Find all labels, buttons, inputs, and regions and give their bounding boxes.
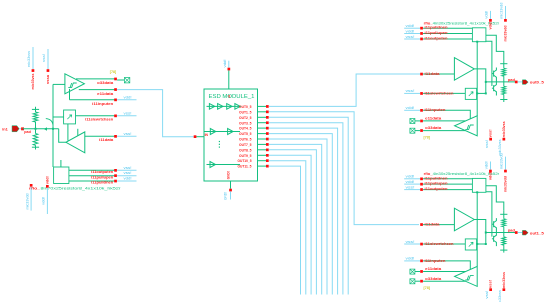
wire buf out 3 bbox=[474, 69, 486, 94]
svg-text:vdd!: vdd! bbox=[124, 177, 132, 181]
vss bar 3 bbox=[500, 100, 507, 103]
wire i11pulldnen 3 bbox=[404, 24, 472, 30]
label OUT2_5 bbox=[239, 116, 252, 120]
wire i11data bbox=[85, 135, 116, 137]
svg-text:vdd!: vdd! bbox=[485, 161, 489, 169]
svg-text:i11outputen: i11outputen bbox=[91, 170, 114, 174]
label OUT1_5 bbox=[239, 110, 252, 114]
pin i11inputen bbox=[114, 95, 136, 101]
label pad 3 bbox=[508, 78, 516, 82]
svg-text:OUT4_5: OUT4_5 bbox=[239, 127, 252, 131]
rail vdd top 4 bbox=[485, 161, 493, 180]
label out0_5 bbox=[530, 80, 545, 85]
svg-text:vdd!: vdd! bbox=[488, 22, 492, 30]
svg-text:pad: pad bbox=[24, 130, 31, 134]
svg-text:vss!: vss! bbox=[485, 291, 489, 299]
svg-text:OUT2_5: OUT2_5 bbox=[239, 116, 252, 120]
pin o33data bbox=[114, 78, 117, 81]
svg-text:OUT7_5: OUT7_5 bbox=[239, 143, 252, 147]
rail mic33vss bot 4 bbox=[498, 272, 506, 302]
pins OUT stubs bbox=[258, 106, 267, 166]
svg-text:pad: pad bbox=[508, 228, 516, 232]
label [78] 4 bbox=[424, 286, 430, 290]
label OUT4_5 bbox=[239, 127, 252, 131]
wire OUT1 to bottom cell bbox=[269, 112, 419, 225]
svg-text:vss!: vss! bbox=[406, 240, 415, 244]
rail vss bot 3 bbox=[485, 129, 493, 148]
label OUT5_5 bbox=[239, 132, 252, 136]
label i11pulldnen bbox=[91, 181, 114, 185]
svg-text:[78]: [78] bbox=[110, 70, 116, 74]
resistor R1 top bbox=[32, 107, 39, 129]
dots bbox=[219, 141, 220, 148]
port in1 bbox=[2, 126, 24, 132]
slew box A1 bbox=[64, 110, 76, 124]
svg-text:out1_5: out1_5 bbox=[530, 230, 545, 235]
label [78] bbox=[110, 70, 116, 74]
label i11slewrtchsen bbox=[85, 118, 114, 122]
svg-text:i11inputen: i11inputen bbox=[425, 108, 447, 112]
svg-text:GND!: GND! bbox=[227, 171, 231, 179]
svg-text:vss!: vss! bbox=[124, 111, 132, 115]
label e11data bbox=[97, 92, 114, 96]
label OUT10_5 bbox=[238, 159, 252, 163]
pin i11pullupen bbox=[114, 171, 136, 177]
wire ctrl out2 4 bbox=[486, 186, 504, 211]
transistor Q3b bbox=[492, 82, 497, 96]
svg-text:vdd!: vdd! bbox=[406, 106, 415, 110]
svg-text:OUT6_5: OUT6_5 bbox=[239, 138, 252, 142]
svg-text:vssa: vssa bbox=[46, 74, 50, 84]
wire o33data 3 bbox=[420, 126, 465, 132]
wire driver feed bbox=[68, 124, 78, 141]
control box 3 bbox=[472, 28, 486, 42]
svg-text:i11outputen: i11outputen bbox=[425, 37, 449, 41]
label cell out3 bbox=[424, 21, 500, 25]
rail vss bot 4 bbox=[485, 280, 493, 299]
wire i11pulldnen bbox=[69, 180, 116, 182]
svg-text:i11data: i11data bbox=[99, 138, 114, 142]
svg-text:i11pullupen: i11pullupen bbox=[425, 182, 449, 186]
label i11inputen bbox=[92, 102, 114, 106]
pin e11data bbox=[114, 88, 117, 91]
svg-text:mic33vss: mic33vss bbox=[502, 272, 506, 288]
svg-text:pad: pad bbox=[508, 78, 516, 82]
svg-text:o33data: o33data bbox=[97, 81, 114, 85]
svg-text:i11pulldnen: i11pulldnen bbox=[91, 181, 114, 185]
wire slew in bbox=[53, 116, 64, 118]
svg-text:vdd!: vdd! bbox=[223, 60, 227, 68]
iopin o33data bbox=[117, 78, 130, 83]
label pad 4 bbox=[508, 228, 516, 232]
svg-text:OUT0_5: OUT0_5 bbox=[239, 105, 252, 109]
wire pad line 3 bbox=[485, 81, 515, 83]
label cell left bbox=[29, 186, 122, 190]
resistor Rtop 3 bbox=[502, 64, 506, 82]
wire i11pullupen 3 bbox=[404, 29, 472, 35]
pin i11outputen bbox=[114, 166, 136, 172]
svg-text:i11pullupen: i11pullupen bbox=[91, 175, 114, 179]
pin GND bottom bbox=[224, 171, 232, 200]
svg-text:i11slewrtchsen: i11slewrtchsen bbox=[425, 242, 455, 246]
wire ctrl feed bbox=[60, 160, 62, 167]
node pad bbox=[24, 130, 31, 134]
svg-text:vdd!: vdd! bbox=[406, 29, 415, 33]
port out0_5 bbox=[522, 80, 528, 85]
label pin vdd num bbox=[228, 95, 230, 99]
svg-text:vss!: vss! bbox=[406, 89, 415, 93]
transistor Q3a bbox=[492, 68, 497, 82]
pin pad 3 bbox=[515, 81, 523, 84]
rail vdd bottom bbox=[42, 176, 50, 214]
label out1_5 bbox=[530, 230, 545, 235]
wire ctrl out2 3 bbox=[486, 35, 504, 60]
rail vdd top 3 bbox=[485, 11, 493, 30]
wire i11data 4 bbox=[420, 222, 454, 226]
wire e11data 3 bbox=[420, 117, 466, 123]
ESD module box bbox=[204, 89, 258, 181]
svg-text:o33data: o33data bbox=[425, 277, 442, 281]
wire driver out bbox=[59, 129, 66, 143]
svg-text:vdd!: vdd! bbox=[124, 95, 132, 99]
svg-text:IN: IN bbox=[205, 133, 209, 137]
svg-text:i11inputen: i11inputen bbox=[425, 259, 447, 263]
svg-text:vdd!: vdd! bbox=[406, 257, 415, 261]
rail mic33vdd top 3 bbox=[500, 3, 508, 42]
svg-text:vss!: vss! bbox=[406, 35, 415, 39]
svg-text:OUT8_5: OUT8_5 bbox=[239, 148, 252, 152]
svg-text:e11data: e11data bbox=[425, 267, 442, 271]
svg-text:mic33vdd: mic33vdd bbox=[25, 194, 29, 210]
svg-text:vss!: vss! bbox=[124, 166, 132, 170]
svg-text:vdd!: vdd! bbox=[488, 172, 492, 180]
wire i11pullupen bbox=[69, 175, 116, 177]
vdd bar 4 bbox=[500, 211, 507, 215]
pin i11pulldnen bbox=[114, 177, 136, 183]
label o33data bbox=[97, 81, 114, 85]
iopin e11data 3 bbox=[410, 119, 420, 124]
wire i11pullupen 4 bbox=[404, 180, 472, 186]
svg-text:vdd!: vdd! bbox=[45, 176, 49, 184]
rail mic33vss bot 3 bbox=[498, 121, 506, 155]
svg-text:OUT3_5: OUT3_5 bbox=[239, 121, 252, 125]
svg-text:[78]: [78] bbox=[424, 286, 430, 290]
rail vssa bbox=[42, 49, 50, 84]
buffer U3a bbox=[454, 58, 474, 81]
svg-text:vss!: vss! bbox=[406, 185, 415, 189]
wire OUT0 to top cell bbox=[269, 74, 421, 106]
pin i11data bbox=[114, 132, 136, 138]
svg-text:8in70x25resistor8_4x1x10k_hk52: 8in70x25resistor8_4x1x10k_hk52r bbox=[41, 186, 122, 190]
control box A2 bbox=[54, 167, 69, 184]
bus wires OUT2-OUT11 bbox=[269, 117, 348, 294]
driver U2 bbox=[66, 132, 85, 153]
rail mic33vdd bottom bbox=[25, 184, 32, 211]
resistor Rbot 3 bbox=[502, 82, 506, 100]
iopin o33data 3 bbox=[410, 128, 420, 133]
label OUT6_5 bbox=[239, 138, 252, 142]
svg-text:mic33vdd: mic33vdd bbox=[500, 153, 504, 169]
svg-text:vdd!: vdd! bbox=[42, 197, 46, 205]
svg-text:i11inputen: i11inputen bbox=[92, 102, 114, 106]
label OUT7_5 bbox=[239, 143, 252, 147]
wire slew out 4 bbox=[476, 243, 487, 245]
svg-text:i11pullupen: i11pullupen bbox=[425, 31, 449, 35]
svg-text:8: 8 bbox=[228, 95, 230, 99]
svg-text:i11pulldnen: i11pulldnen bbox=[425, 176, 449, 180]
wire slew out 3 bbox=[476, 92, 487, 94]
resistor Rtop 4 bbox=[502, 214, 506, 232]
wire e11data to ESD IN bbox=[117, 90, 193, 137]
wire pad to comparator bbox=[53, 84, 65, 167]
svg-text:[78]: [78] bbox=[424, 136, 430, 140]
rail mic33vdd top 4 bbox=[500, 153, 508, 192]
wire i11outputen bbox=[69, 169, 116, 171]
svg-text:vdd!: vdd! bbox=[406, 175, 415, 179]
svg-text:i11slewrtchsen: i11slewrtchsen bbox=[425, 91, 455, 95]
label OUT11_5 bbox=[238, 165, 252, 169]
wire i11outputen 4 bbox=[404, 185, 472, 191]
svg-text:o33data: o33data bbox=[425, 126, 442, 130]
wire buf out 4 bbox=[474, 220, 486, 245]
svg-text:vss!: vss! bbox=[124, 171, 132, 175]
wire pad line 4 bbox=[485, 232, 515, 234]
svg-text:GND!: GND! bbox=[224, 192, 228, 200]
svg-text:OUT5_5: OUT5_5 bbox=[239, 132, 252, 136]
label ESD MODULE_1 bbox=[209, 94, 255, 100]
wire ctrl out1 3 bbox=[486, 41, 492, 86]
svg-text:vss!: vss! bbox=[489, 280, 493, 288]
svg-text:i11slewrtchsen: i11slewrtchsen bbox=[85, 118, 114, 122]
label IN bbox=[205, 133, 209, 137]
transistor Q4b bbox=[492, 233, 497, 247]
pin i11slewrtchsen bbox=[114, 111, 136, 117]
wire pad horizontal bbox=[23, 128, 59, 130]
wire i11slewrtchsen 4 bbox=[404, 240, 465, 246]
svg-text:vdd!: vdd! bbox=[485, 11, 489, 19]
clamp arc bbox=[44, 119, 53, 131]
svg-text:mic33vdd: mic33vdd bbox=[503, 26, 507, 42]
label cell out4 bbox=[424, 172, 500, 176]
svg-text:mic33vss: mic33vss bbox=[498, 139, 502, 155]
label OUT8_5 bbox=[239, 148, 252, 152]
iopin o33data 4 bbox=[410, 279, 420, 284]
svg-text:out0_5: out0_5 bbox=[530, 80, 545, 85]
wire e11data bbox=[79, 89, 116, 91]
slew box 4 bbox=[465, 239, 476, 250]
label i11data bbox=[99, 138, 114, 142]
svg-text:mic33vdd: mic33vdd bbox=[500, 3, 504, 19]
wire ctrl down 4 bbox=[476, 191, 478, 266]
wire i11inputen 4 bbox=[404, 257, 470, 270]
svg-text:ESD MODULE_1: ESD MODULE_1 bbox=[209, 94, 255, 100]
vdd bar 3 bbox=[500, 60, 507, 64]
label i11outputen bbox=[91, 170, 114, 174]
wire i11data 3 bbox=[420, 72, 454, 76]
svg-text:mic33vss: mic33vss bbox=[502, 121, 506, 137]
svg-text:vdd!: vdd! bbox=[406, 24, 415, 28]
svg-text:vss!: vss! bbox=[42, 54, 46, 62]
label i11pullupen bbox=[91, 175, 114, 179]
control box 4 bbox=[472, 178, 486, 192]
svg-text:vss!: vss! bbox=[489, 129, 493, 137]
receiver U4b bbox=[455, 266, 478, 286]
svg-text:mic33vss: mic33vss bbox=[498, 290, 502, 302]
wire e11data 4 bbox=[420, 267, 466, 273]
wire o33data 4 bbox=[420, 277, 465, 283]
resistor R2 bottom bbox=[32, 129, 39, 150]
junction pad bbox=[35, 128, 55, 130]
svg-text:i11data: i11data bbox=[425, 222, 441, 226]
buffer U4a bbox=[454, 208, 474, 231]
wire i11pulldnen 4 bbox=[404, 175, 472, 181]
label OUT9_5 bbox=[239, 154, 252, 158]
svg-text:OUT1_5: OUT1_5 bbox=[239, 110, 252, 114]
pin pad 4 bbox=[515, 231, 523, 234]
wire ctrl out1 4 bbox=[486, 192, 492, 237]
svg-text:mic33vss: mic33vss bbox=[27, 51, 31, 67]
wire i11inputen bbox=[70, 89, 116, 100]
svg-text:OUT11_5: OUT11_5 bbox=[238, 165, 252, 169]
svg-text:e11data: e11data bbox=[425, 117, 442, 121]
svg-text:in1: in1 bbox=[2, 127, 8, 132]
wire ctrl down 3 bbox=[476, 41, 478, 116]
iopin e11data 4 bbox=[410, 269, 420, 274]
svg-text:i11pulldnen: i11pulldnen bbox=[425, 26, 449, 30]
wire i11outputen 3 bbox=[404, 35, 472, 41]
vss bar 4 bbox=[500, 250, 507, 253]
pin IN square bbox=[194, 135, 204, 138]
wire i11slewrtchsen bbox=[76, 115, 116, 117]
svg-text:i11outputen: i11outputen bbox=[425, 187, 449, 191]
svg-text:e11data: e11data bbox=[97, 92, 114, 96]
svg-text:vss!: vss! bbox=[485, 140, 489, 148]
wire i11inputen 3 bbox=[404, 106, 470, 119]
pin vdd top bbox=[223, 60, 230, 90]
port out1_5 bbox=[522, 230, 528, 235]
wire o33data bbox=[76, 78, 116, 80]
svg-text:mic33vdd: mic33vdd bbox=[503, 176, 507, 192]
svg-text:vss!: vss! bbox=[124, 132, 132, 136]
svg-text:vdd!: vdd! bbox=[406, 180, 415, 184]
buffer chain row1 bbox=[207, 104, 241, 110]
slew box 3 bbox=[465, 88, 476, 99]
svg-text:mic33vss: mic33vss bbox=[31, 74, 35, 90]
receiver U3b bbox=[455, 116, 478, 136]
comparator U1 bbox=[65, 74, 85, 94]
buffer row2 bbox=[204, 129, 240, 135]
wire i11slewrtchsen 3 bbox=[404, 89, 465, 95]
svg-text:OUT10_5: OUT10_5 bbox=[238, 159, 252, 163]
label [78] 3 bbox=[424, 136, 430, 140]
transistor Q4a bbox=[492, 218, 497, 232]
rail mic33vss bbox=[27, 47, 35, 90]
svg-text:i11data: i11data bbox=[425, 72, 441, 76]
resistor Rbot 4 bbox=[502, 233, 506, 251]
pins OUT squares bbox=[266, 105, 269, 167]
buffer row3 bbox=[207, 162, 241, 168]
label OUT3_5 bbox=[239, 121, 252, 125]
label OUT0_5 bbox=[239, 105, 252, 109]
svg-text:OUT9_5: OUT9_5 bbox=[239, 154, 252, 158]
